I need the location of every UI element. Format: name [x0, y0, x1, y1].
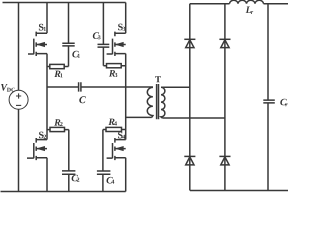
wire: secondary top lead to rectifier column 1	[161, 86, 190, 88]
wire: S2 source to bottom bus	[46, 158, 48, 192]
wire: leg A drain drop from top bus	[46, 3, 48, 34]
capacitor C1	[62, 3, 74, 67]
wire: rectifier column 2	[224, 4, 226, 191]
wire: leg B to transformer primary bottom	[126, 116, 152, 118]
label S1	[39, 24, 46, 31]
label S3	[118, 24, 125, 31]
wire: leg B drain drop from top bus	[125, 3, 127, 34]
diode D4	[219, 156, 230, 165]
transistor S1	[28, 32, 47, 56]
wire: blocking cap to transformer primary top	[81, 86, 153, 88]
transformer core	[157, 84, 159, 119]
label Cr	[280, 99, 287, 107]
transistor S3	[107, 32, 126, 56]
label C1	[72, 51, 80, 58]
label T	[155, 76, 161, 82]
label R3	[109, 70, 117, 77]
resistor R1	[47, 64, 69, 68]
wire: VDC rail lower segment	[18, 110, 20, 192]
diode D2	[219, 39, 230, 47]
label C2	[72, 175, 80, 182]
wire: rectifier column 1	[189, 4, 191, 191]
capacitor C2	[62, 130, 75, 192]
wire: VDC rail upper segment	[18, 3, 20, 91]
wire: rectifier bottom bus	[190, 190, 288, 192]
label Lr	[246, 7, 254, 15]
label C4	[107, 177, 115, 184]
label R4	[108, 119, 117, 126]
transistor S4	[107, 138, 126, 160]
diode D1	[184, 39, 195, 47]
resistor R4	[103, 127, 126, 131]
capacitor C4	[97, 130, 111, 192]
source VDC circle	[9, 90, 28, 109]
capacitor Cr output filter	[263, 4, 275, 191]
wire: secondary bottom lead to rectifier column 2	[162, 117, 225, 119]
label VDC	[1, 84, 15, 92]
label R1	[54, 71, 62, 78]
resistor R2	[47, 127, 69, 131]
wire: leg B mid vertical	[125, 54, 127, 140]
source VDC minus sign	[16, 104, 21, 106]
inductor Lr	[230, 0, 264, 3]
label S4	[118, 132, 125, 139]
transformer T primary winding	[147, 87, 153, 117]
label S2	[39, 132, 46, 139]
wire: bottom bus of left bridge	[1, 191, 126, 193]
label C	[79, 96, 86, 103]
transistor S2	[27, 138, 47, 160]
transformer T secondary winding	[161, 87, 165, 118]
source VDC plus sign	[16, 93, 21, 98]
wire: rectifier top bus	[190, 3, 288, 5]
capacitor C blocking	[79, 82, 81, 91]
wire: phase node A to blocking cap	[47, 86, 79, 88]
wire: top bus of left bridge	[3, 2, 126, 4]
wire: S4 source to bottom bus	[125, 158, 127, 192]
capacitor C3	[98, 3, 110, 66]
resistor R3	[103, 64, 125, 68]
label R2	[54, 119, 62, 126]
wire: leg A mid vertical	[46, 54, 48, 140]
diode D3	[184, 156, 195, 165]
label C3	[93, 32, 101, 39]
